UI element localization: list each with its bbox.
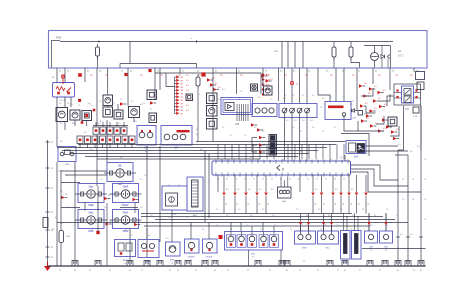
svg-text:0.5: 0.5 bbox=[186, 105, 189, 107]
svg-text:31: 31 bbox=[89, 270, 91, 272]
svg-text:1.5: 1.5 bbox=[322, 131, 324, 133]
svg-text:1.5: 1.5 bbox=[258, 91, 260, 93]
svg-text:ISC: ISC bbox=[326, 248, 330, 250]
svg-text:0.5: 0.5 bbox=[226, 189, 229, 191]
wire arrow feed bbox=[174, 87, 176, 114]
sensor CB1 bbox=[185, 239, 200, 253]
diode D1 bbox=[381, 55, 385, 59]
svg-text:0.5: 0.5 bbox=[186, 110, 189, 112]
svg-text:1.5: 1.5 bbox=[144, 175, 146, 177]
svg-text:1.5: 1.5 bbox=[168, 217, 170, 219]
harness wire low bbox=[155, 219, 395, 221]
ECU pin down bbox=[217, 175, 219, 192]
svg-text:12: 12 bbox=[307, 179, 309, 181]
svg-text:0.5: 0.5 bbox=[300, 224, 303, 226]
connector arrow bbox=[379, 105, 383, 108]
wire conn bbox=[230, 222, 232, 231]
svg-text:0.5: 0.5 bbox=[335, 189, 338, 191]
svg-text:0.5: 0.5 bbox=[108, 195, 111, 197]
svg-text:0.5: 0.5 bbox=[72, 123, 75, 125]
svg-text:1.5: 1.5 bbox=[424, 179, 426, 181]
wire sub rail bbox=[120, 63, 197, 65]
ground comb bbox=[405, 261, 411, 266]
connector arrow bbox=[61, 196, 65, 199]
connector arrow C4 bbox=[175, 86, 177, 88]
svg-text:2.5: 2.5 bbox=[171, 263, 174, 265]
svg-text:B1F: B1F bbox=[170, 260, 175, 262]
svg-text:1.5: 1.5 bbox=[254, 127, 256, 129]
lamp E3 bbox=[113, 184, 139, 203]
wire trunk r2 bbox=[413, 68, 415, 72]
svg-text:2.5: 2.5 bbox=[121, 205, 124, 207]
connector arrow bbox=[360, 104, 364, 107]
harness wire low bbox=[141, 213, 352, 215]
ground comb bbox=[127, 261, 133, 266]
connector arrow bbox=[369, 87, 373, 90]
svg-text:1.5: 1.5 bbox=[150, 215, 152, 217]
control unit A1 bbox=[221, 98, 253, 115]
right edge connector bbox=[416, 72, 425, 80]
svg-text:1.5: 1.5 bbox=[336, 225, 338, 227]
switch S4 bbox=[100, 136, 106, 144]
svg-text:2.5: 2.5 bbox=[252, 257, 255, 259]
svg-text:0.5: 0.5 bbox=[283, 98, 286, 100]
lamp E4 bbox=[78, 210, 104, 229]
connector arrow pin bbox=[355, 193, 358, 196]
svg-text:0.5: 0.5 bbox=[186, 100, 189, 102]
svg-text:12: 12 bbox=[271, 179, 273, 181]
switch S7 bbox=[122, 136, 128, 144]
svg-text:1.5: 1.5 bbox=[262, 209, 264, 211]
switch S5 bbox=[107, 136, 113, 144]
svg-text:0.5: 0.5 bbox=[186, 85, 189, 87]
connector arrow C5 bbox=[175, 89, 177, 91]
ground comb bbox=[72, 261, 78, 266]
svg-text:1.5: 1.5 bbox=[222, 127, 224, 129]
connector arrow bbox=[391, 130, 395, 133]
sensor CB2 bbox=[203, 239, 218, 253]
svg-text:1.5: 1.5 bbox=[352, 101, 354, 103]
svg-text:151: 151 bbox=[330, 75, 333, 77]
svg-text:1.5: 1.5 bbox=[424, 199, 426, 201]
wire conn bbox=[97, 186, 99, 232]
svg-text:0.5: 0.5 bbox=[250, 157, 253, 159]
connector arrow bbox=[393, 137, 397, 140]
wire drop 330 bbox=[318, 68, 330, 102]
ECU pin up bbox=[343, 144, 345, 160]
svg-text:0.5: 0.5 bbox=[98, 123, 101, 125]
svg-text:CB,SW: CB,SW bbox=[188, 257, 195, 259]
svg-text:31: 31 bbox=[236, 204, 238, 206]
connector arrow bbox=[213, 88, 217, 91]
wire feed drop bbox=[287, 42, 289, 69]
ECU pin down bbox=[265, 175, 267, 192]
ground bus spur bbox=[362, 248, 426, 250]
horn H1 bbox=[56, 108, 68, 122]
wire trunk bend2 bbox=[395, 154, 408, 156]
svg-text:31: 31 bbox=[359, 270, 361, 272]
ECU pin down bbox=[245, 175, 247, 192]
power distribution frame P30 bbox=[49, 31, 428, 69]
connector arrow C1 bbox=[175, 76, 177, 78]
svg-text:0.5: 0.5 bbox=[215, 83, 218, 85]
svg-text:0.5: 0.5 bbox=[375, 123, 378, 125]
control unit A1 inner bbox=[225, 103, 234, 111]
ground comb bbox=[342, 261, 348, 266]
svg-text:0.5: 0.5 bbox=[222, 89, 225, 91]
svg-text:1.5: 1.5 bbox=[120, 99, 122, 101]
wire right trunk1 bbox=[397, 150, 399, 266]
connector arrow bbox=[364, 94, 368, 97]
ground comb bbox=[395, 261, 401, 266]
resistor R2 bbox=[43, 218, 48, 228]
switch block S20 bbox=[279, 104, 317, 118]
svg-text:151: 151 bbox=[160, 75, 163, 77]
svg-text:2.5: 2.5 bbox=[385, 250, 388, 252]
svg-text:1.5: 1.5 bbox=[216, 225, 218, 227]
wire step ra bbox=[361, 88, 373, 96]
svg-text:151: 151 bbox=[62, 75, 65, 77]
module pin arrow bbox=[331, 214, 333, 223]
wire ecu right links bbox=[351, 165, 399, 180]
wire trunk link1 bbox=[365, 145, 399, 147]
harness wire low bbox=[57, 222, 408, 224]
ground comb bbox=[144, 261, 150, 266]
svg-text:151: 151 bbox=[178, 75, 181, 77]
svg-text:12: 12 bbox=[343, 179, 345, 181]
connector 63F bbox=[358, 111, 363, 116]
svg-text:2.5: 2.5 bbox=[147, 264, 150, 266]
svg-text:31: 31 bbox=[342, 204, 344, 206]
svg-text:31: 31 bbox=[413, 270, 415, 272]
svg-text:INJ: INJ bbox=[251, 254, 254, 256]
svg-text:GbD: GbD bbox=[282, 201, 287, 203]
svg-text:1.5: 1.5 bbox=[262, 131, 264, 133]
svg-text:151: 151 bbox=[124, 75, 127, 77]
stack arrows bbox=[259, 136, 263, 139]
antenna module frame bbox=[187, 177, 203, 211]
svg-text:1.5: 1.5 bbox=[374, 215, 376, 217]
svg-text:0.5: 0.5 bbox=[196, 129, 199, 131]
module CNP2 bbox=[380, 231, 393, 243]
module M1F bbox=[115, 240, 136, 257]
spine tick bbox=[46, 229, 50, 231]
fuse F30 bbox=[96, 47, 100, 56]
svg-text:0.5: 0.5 bbox=[271, 189, 274, 191]
connector arrow pin bbox=[347, 193, 350, 196]
connector tag bbox=[262, 83, 265, 86]
svg-text:1.5: 1.5 bbox=[150, 109, 152, 111]
switch contact bbox=[282, 108, 287, 113]
svg-text:0.5: 0.5 bbox=[237, 189, 240, 191]
svg-text:31: 31 bbox=[269, 270, 271, 272]
svg-text:2.5: 2.5 bbox=[91, 230, 94, 232]
svg-text:1.5: 1.5 bbox=[342, 97, 344, 99]
ground comb bbox=[157, 261, 163, 266]
svg-text:31: 31 bbox=[299, 270, 301, 272]
svg-text:1.5: 1.5 bbox=[330, 97, 332, 99]
svg-text:HO2S: HO2S bbox=[342, 262, 348, 264]
svg-text:0.5: 0.5 bbox=[365, 103, 368, 105]
wire fuse32 drop bbox=[351, 57, 360, 68]
wire fuse F15 down bbox=[197, 89, 199, 142]
switch S12 bbox=[114, 110, 123, 119]
svg-text:0.5: 0.5 bbox=[52, 229, 55, 231]
connector mark bbox=[96, 231, 99, 234]
svg-text:0.5: 0.5 bbox=[90, 149, 93, 151]
ECU A10 box bbox=[212, 161, 351, 175]
svg-text:151: 151 bbox=[410, 75, 413, 77]
svg-text:31: 31 bbox=[195, 270, 197, 272]
svg-text:151: 151 bbox=[198, 75, 201, 77]
A4 red dots bbox=[396, 89, 398, 91]
module M2F bbox=[138, 240, 159, 258]
ground comb bbox=[185, 261, 191, 266]
connector arrow bbox=[370, 124, 374, 127]
junction dot bbox=[98, 41, 100, 43]
svg-text:0.5: 0.5 bbox=[366, 118, 369, 120]
fuse F31 bbox=[332, 47, 336, 57]
left spine bbox=[47, 140, 49, 266]
svg-text:0.5: 0.5 bbox=[120, 157, 123, 159]
motor M5 bbox=[103, 95, 113, 106]
lamp E2 bbox=[78, 184, 104, 203]
svg-text:31: 31 bbox=[141, 270, 143, 272]
connector arrow C11 bbox=[175, 109, 177, 111]
connector arrow bbox=[207, 78, 211, 81]
ECU pin down bbox=[356, 175, 358, 192]
lamp E1 bbox=[107, 163, 133, 182]
svg-text:1.5: 1.5 bbox=[78, 105, 80, 107]
svg-text:0.5: 0.5 bbox=[130, 235, 133, 237]
svg-text:31: 31 bbox=[227, 270, 229, 272]
wire conn bbox=[134, 203, 136, 213]
svg-text:2.5: 2.5 bbox=[121, 182, 124, 184]
svg-text:1.5: 1.5 bbox=[58, 171, 60, 173]
ECU pin up bbox=[308, 144, 310, 160]
connector mark bbox=[93, 109, 96, 112]
svg-text:1.5: 1.5 bbox=[292, 127, 294, 129]
svg-text:0.5: 0.5 bbox=[84, 132, 87, 134]
svg-text:1.5: 1.5 bbox=[246, 225, 248, 227]
svg-text:0.5: 0.5 bbox=[378, 98, 381, 100]
connector mark bbox=[124, 73, 127, 76]
svg-text:GbA: GbA bbox=[354, 156, 359, 159]
connector arrow bbox=[378, 129, 382, 132]
harness wire bbox=[97, 158, 260, 160]
svg-text:1.5: 1.5 bbox=[260, 229, 262, 231]
svg-text:0.5: 0.5 bbox=[138, 221, 141, 223]
connector tag bbox=[262, 93, 265, 96]
svg-text:0.5: 0.5 bbox=[300, 151, 303, 153]
svg-text:0.5: 0.5 bbox=[330, 159, 333, 161]
svg-text:1.5: 1.5 bbox=[318, 209, 320, 211]
wire right trunk2 bbox=[407, 155, 409, 266]
svg-text:31: 31 bbox=[247, 270, 249, 272]
module CNP1 bbox=[365, 231, 378, 243]
svg-text:P30: P30 bbox=[56, 36, 62, 40]
svg-text:0.5: 0.5 bbox=[266, 74, 269, 76]
connector comb A1 bbox=[236, 104, 238, 121]
ECU pin up bbox=[301, 144, 303, 160]
wire sub rail feed bbox=[129, 42, 131, 64]
connector arrow pin bbox=[264, 193, 267, 196]
svg-text:0.5: 0.5 bbox=[259, 189, 262, 191]
alternator G1 bbox=[371, 53, 379, 61]
connector arrow pin bbox=[331, 193, 334, 196]
wire to relay K1 bbox=[64, 68, 66, 82]
wire step rb bbox=[379, 94, 390, 101]
connector arrow bbox=[373, 99, 377, 102]
ECU pin up bbox=[322, 144, 324, 160]
wire step rd bbox=[376, 116, 384, 124]
svg-text:1.5: 1.5 bbox=[66, 175, 68, 177]
svg-text:1.5: 1.5 bbox=[424, 219, 426, 221]
svg-text:31: 31 bbox=[350, 204, 352, 206]
connector X2 bbox=[78, 73, 82, 77]
svg-text:1.5: 1.5 bbox=[274, 225, 276, 227]
svg-text:0.5: 0.5 bbox=[398, 144, 401, 146]
wire conn bbox=[262, 222, 264, 231]
svg-text:1.5: 1.5 bbox=[100, 179, 102, 181]
svg-text:151: 151 bbox=[90, 75, 93, 77]
wire conn bbox=[251, 226, 253, 231]
clock icon bbox=[251, 84, 258, 91]
flasher K3 bbox=[58, 147, 76, 162]
wire right bends bbox=[398, 106, 404, 150]
svg-text:0.5: 0.5 bbox=[368, 93, 371, 95]
svg-text:1.5: 1.5 bbox=[230, 135, 232, 137]
ECU pin up bbox=[245, 144, 247, 160]
svg-text:1.5: 1.5 bbox=[140, 179, 142, 181]
connector arrow C8 bbox=[175, 99, 177, 101]
bus rail 30 bbox=[49, 67, 428, 69]
wire drop 307 bbox=[306, 68, 308, 104]
svg-text:2.5: 2.5 bbox=[91, 205, 94, 207]
spine tick bbox=[46, 211, 50, 213]
connector X1 bbox=[61, 75, 65, 79]
svg-text:31: 31 bbox=[367, 204, 369, 206]
svg-text:151: 151 bbox=[284, 75, 287, 77]
wire trunk 180 bbox=[179, 68, 181, 73]
connector arrow C12 bbox=[175, 112, 177, 114]
svg-text:1.5: 1.5 bbox=[104, 207, 106, 209]
svg-text:12: 12 bbox=[298, 179, 300, 181]
svg-text:151: 151 bbox=[140, 75, 143, 77]
harness rail bbox=[155, 73, 261, 94]
svg-text:0.5: 0.5 bbox=[186, 90, 189, 92]
switch S3 bbox=[92, 136, 98, 144]
svg-text:31: 31 bbox=[267, 204, 269, 206]
svg-text:0.5: 0.5 bbox=[323, 224, 326, 226]
relay block K9 bbox=[325, 102, 351, 120]
svg-text:12: 12 bbox=[289, 179, 291, 181]
harness wire bbox=[130, 144, 336, 146]
svg-text:151: 151 bbox=[78, 75, 81, 77]
svg-text:CB,SW: CB,SW bbox=[206, 257, 213, 259]
wire feed drop bbox=[302, 42, 304, 69]
injector ground wires bbox=[248, 250, 250, 266]
harness wire low bbox=[141, 216, 383, 218]
connector arrow C2 bbox=[175, 79, 177, 81]
svg-text:0.5: 0.5 bbox=[148, 235, 151, 237]
svg-text:0.5: 0.5 bbox=[396, 129, 399, 131]
svg-text:0.5: 0.5 bbox=[186, 75, 189, 77]
svg-text:A1F: A1F bbox=[144, 147, 149, 150]
connector arrow C3 bbox=[175, 83, 177, 85]
svg-text:1.5: 1.5 bbox=[131, 101, 133, 103]
svg-text:0.5: 0.5 bbox=[145, 151, 148, 153]
wire drop 299 bbox=[299, 68, 301, 104]
connector arrow bbox=[134, 223, 138, 226]
connector arrow bbox=[150, 101, 154, 104]
svg-text:1.5: 1.5 bbox=[424, 159, 426, 161]
svg-text:2.5: 2.5 bbox=[303, 261, 306, 263]
svg-text:0.5: 0.5 bbox=[258, 97, 261, 99]
switch S8 bbox=[129, 136, 135, 144]
svg-text:1.5: 1.5 bbox=[290, 229, 292, 231]
svg-text:151: 151 bbox=[220, 75, 223, 77]
trunk tick bbox=[406, 236, 410, 238]
svg-text:1.5: 1.5 bbox=[104, 183, 106, 185]
svg-text:2.5: 2.5 bbox=[190, 260, 193, 262]
trunk tick bbox=[396, 236, 400, 238]
svg-text:31: 31 bbox=[323, 204, 325, 206]
display module A4 bbox=[402, 86, 414, 103]
wire vert 213 bbox=[212, 68, 214, 141]
svg-text:0.5: 0.5 bbox=[118, 123, 121, 125]
wire conn bbox=[273, 226, 275, 231]
wire right trunk3 bbox=[420, 150, 422, 266]
svg-text:1.5: 1.5 bbox=[328, 215, 330, 217]
switch S2 bbox=[85, 136, 91, 144]
ECU pin down bbox=[365, 175, 367, 192]
svg-text:0.5: 0.5 bbox=[55, 217, 58, 219]
ECU pin up bbox=[231, 144, 233, 160]
ground comb bbox=[212, 261, 218, 266]
ground G100 bbox=[47, 262, 49, 266]
svg-text:12: 12 bbox=[244, 179, 246, 181]
svg-text:0.5: 0.5 bbox=[196, 134, 199, 136]
svg-text:31: 31 bbox=[314, 204, 316, 206]
svg-text:31: 31 bbox=[379, 270, 381, 272]
svg-text:1.5: 1.5 bbox=[284, 95, 286, 97]
lamp row links bbox=[56, 162, 58, 266]
svg-text:0.5: 0.5 bbox=[248, 189, 251, 191]
svg-text:0.5: 0.5 bbox=[286, 120, 289, 122]
connector arrow bbox=[133, 198, 137, 201]
wire conn bbox=[190, 222, 192, 239]
svg-text:D1F: D1F bbox=[352, 118, 357, 120]
svg-text:0.5: 0.5 bbox=[315, 189, 318, 191]
ground comb bbox=[255, 261, 261, 266]
fuse F1 bbox=[93, 127, 99, 134]
svg-text:56aL: 56aL bbox=[88, 187, 94, 189]
svg-text:1.5: 1.5 bbox=[306, 225, 308, 227]
svg-text:31: 31 bbox=[358, 204, 360, 206]
svg-text:56aR: 56aR bbox=[123, 187, 129, 189]
svg-text:1.5: 1.5 bbox=[110, 99, 112, 101]
svg-text:1.5: 1.5 bbox=[312, 127, 314, 129]
svg-text:0.5: 0.5 bbox=[134, 121, 137, 123]
GbA enclosure bbox=[341, 134, 369, 157]
wire feed drop bbox=[294, 42, 296, 69]
wire fuse F40 bbox=[60, 222, 62, 230]
switch contact bbox=[297, 108, 302, 113]
switch S11 bbox=[82, 111, 92, 121]
ECU pin up bbox=[315, 144, 317, 160]
svg-text:1.5: 1.5 bbox=[90, 105, 92, 107]
